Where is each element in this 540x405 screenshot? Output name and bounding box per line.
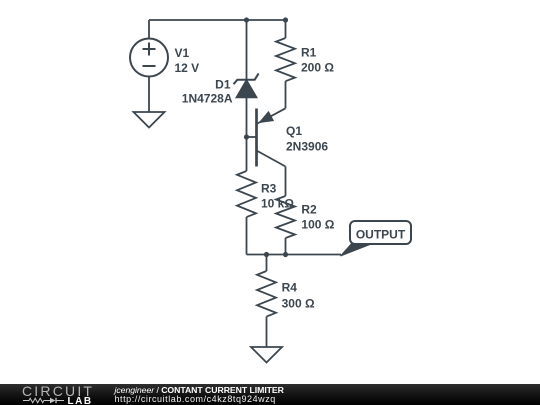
svg-text:V1: V1	[175, 46, 190, 60]
wire top rail	[149, 19, 286, 21]
svg-text:OUTPUT: OUTPUT	[356, 228, 406, 242]
resistor R1	[276, 38, 295, 81]
resistor R3	[237, 171, 256, 217]
resistor R2	[276, 196, 295, 238]
wire R2 bottom lead	[285, 238, 287, 255]
CircuitLab logo CIRCUIT	[22, 386, 94, 397]
wire V1 bottom lead	[148, 77, 150, 113]
svg-text:R4: R4	[282, 281, 298, 295]
wire R1 top lead	[285, 20, 287, 38]
node junction top R1	[283, 17, 288, 22]
svg-text:R2: R2	[301, 203, 317, 217]
svg-text:R3: R3	[261, 182, 277, 196]
voltage source V1	[130, 39, 168, 77]
svg-text:200 Ω: 200 Ω	[301, 61, 334, 75]
wire R1 to emitter	[285, 81, 287, 108]
ground under R4	[251, 347, 282, 363]
node OUTPUT flag	[341, 221, 412, 256]
svg-text:Q1: Q1	[286, 124, 302, 138]
wire bottom rail	[247, 254, 342, 256]
node junction base	[244, 134, 249, 139]
ground under V1	[134, 112, 165, 128]
svg-text:2N3906: 2N3906	[286, 140, 328, 154]
node junction R2	[283, 252, 288, 257]
wire zener to R3	[246, 98, 248, 172]
footer author/title line	[115, 385, 284, 395]
wire R4 bottom lead	[266, 317, 268, 347]
svg-text:R1: R1	[301, 46, 317, 60]
wire base lead	[247, 136, 256, 138]
wire V1 top lead	[148, 20, 150, 39]
transistor Q1	[257, 108, 286, 166]
svg-text:10 kΩ: 10 kΩ	[261, 197, 294, 211]
wire zener top lead	[246, 20, 248, 80]
svg-text:100 Ω: 100 Ω	[301, 218, 334, 232]
wire collector lead	[285, 167, 287, 197]
svg-text:300 Ω: 300 Ω	[282, 297, 315, 311]
CircuitLab logo LAB	[68, 396, 93, 405]
node junction R4	[264, 252, 269, 257]
CircuitLab logo squiggle	[23, 397, 68, 404]
node junction top zener	[244, 17, 249, 22]
resistor R4	[257, 271, 276, 317]
wire R3 bottom lead	[246, 217, 248, 255]
svg-text:1N4728A: 1N4728A	[182, 92, 233, 106]
wire R4 top lead	[266, 255, 268, 272]
footer bar	[0, 384, 540, 405]
footer url line	[115, 394, 276, 404]
svg-text:12 V: 12 V	[175, 61, 200, 75]
zener diode D1	[234, 74, 259, 98]
svg-text:D1: D1	[215, 78, 231, 92]
